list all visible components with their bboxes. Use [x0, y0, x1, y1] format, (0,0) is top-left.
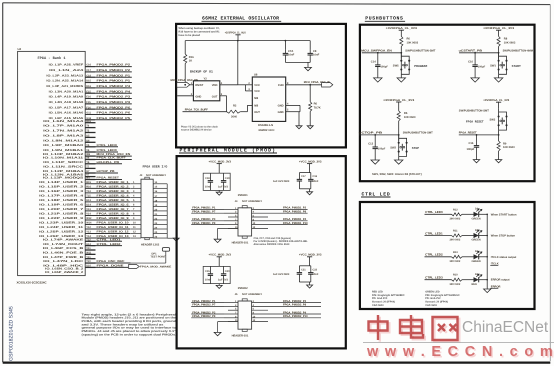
svg-text:IO_L8N_M1A12: IO_L8N_M1A12 [43, 139, 84, 142]
svg-text:10nF: 10nF [312, 273, 318, 276]
svg-text:FPGA_USER_IO_12: FPGA_USER_IO_12 [97, 230, 130, 234]
svg-text:source DS34BL1-N device: source DS34BL1-N device [181, 128, 212, 131]
svg-text:C17: C17 [301, 175, 306, 178]
svg-text:FPGA RESET: FPGA RESET [466, 120, 484, 123]
svg-text:1uF 6V3 0603: 1uF 6V3 0603 [273, 180, 290, 183]
svg-text:R5: R5 [404, 112, 408, 115]
svg-text:IO_L74N_DOUT: IO_L74N_DOUT [43, 243, 84, 246]
svg-text:PERIPHERAL MODULE (PMOD): PERIPHERAL MODULE (PMOD) [180, 147, 277, 153]
svg-text:10nF: 10nF [313, 53, 320, 56]
svg-text:R9: R9 [503, 142, 507, 145]
svg-text:FPGA_USER_IO_8: FPGA_USER_IO_8 [97, 212, 130, 216]
svg-text:IO_L15P_USER_2: IO_L15P_USER_2 [39, 185, 84, 188]
capacitor C14 [377, 52, 379, 54]
svg-text:66MHZ EXTERNAL OSCILLATOR: 66MHZ EXTERNAL OSCILLATOR [202, 16, 279, 22]
svg-text:IO_L6N_M1A4: IO_L6N_M1A4 [43, 120, 84, 123]
svg-text:uCTOP_PB: uCTOP_PB [359, 132, 382, 135]
svg-text:IO_L2N_A22_M1A14: IO_L2N_A22_M1A14 [46, 80, 84, 83]
svg-text:MCU_SWFPGA_EN: MCU_SWFPGA_EN [361, 50, 392, 53]
svg-text:SW/PUSHBUTTON-SMT: SW/PUSHBUTTON-SMT [459, 110, 489, 113]
ground for C10 [471, 78, 479, 82]
svg-text:uCLKPLL_PB: uCLKPLL_PB [97, 160, 120, 164]
svg-text:10nF: 10nF [205, 279, 211, 282]
wire R2 to U8 [240, 111, 247, 113]
svg-text:PROGRAM: PROGRAM [414, 64, 427, 68]
svg-text:390 0402: 390 0402 [450, 283, 461, 286]
svg-text:IO_L14P_USER_1: IO_L14P_USER_1 [39, 181, 84, 184]
svg-text:+3V3FPGA_CL_3V3: +3V3FPGA_CL_3V3 [386, 26, 418, 30]
capacitor C16 pushbutton [476, 134, 478, 136]
svg-text:TEST POINT: TEST POINT [150, 255, 166, 258]
wire R11 to D2 [462, 235, 474, 237]
ground for SW5 [400, 74, 402, 78]
svg-text:SW5: SW5 [393, 64, 399, 67]
svg-text:IO_L24P_USER_11: IO_L24P_USER_11 [39, 226, 84, 229]
capacitor C15 [209, 266, 211, 273]
svg-text:10K 0603: 10K 0603 [504, 41, 516, 44]
svg-text:IO_L8P_M1A3: IO_L8P_M1A3 [43, 135, 84, 138]
svg-text:PMOD2: PMOD2 [238, 286, 248, 290]
PMOD header J5 body [238, 301, 252, 329]
svg-text:R6: R6 [314, 103, 318, 106]
capacitor C13 [374, 134, 376, 136]
svg-text:NOT ASSEMBLY: NOT ASSEMBLY [146, 174, 166, 177]
wire Y2 GND left [177, 95, 193, 97]
svg-text:uCSTART_PB: uCSTART_PB [459, 50, 482, 53]
FPGA - Bank 1 symbol box U4 [18, 51, 86, 275]
capacitor C16 [310, 173, 312, 180]
svg-text:IO_L74P_AWAKE: IO_L74P_AWAKE [43, 238, 84, 241]
svg-text:XC6SLX16-2CSG324C: XC6SLX16-2CSG324C [17, 281, 47, 285]
capacitor C22 [310, 266, 312, 273]
svg-text:C16: C16 [312, 175, 317, 178]
svg-text:C13: C13 [368, 143, 373, 146]
oscillator Y2 body [193, 81, 219, 101]
svg-text:IO_L11P_SRCC: IO_L11P_SRCC [43, 161, 83, 164]
svg-text:CAD 0603: CAD 0603 [425, 304, 437, 307]
ground for SW2 [398, 156, 400, 160]
svg-text:FPGA_USER_IO_9: FPGA_USER_IO_9 [97, 216, 130, 220]
svg-text:CAD 0603: CAD 0603 [372, 304, 384, 307]
svg-text:IO_L16P_USER_3: IO_L16P_USER_3 [39, 190, 84, 193]
svg-text:IO_L3N_A20_M1A1: IO_L3N_A20_M1A1 [49, 90, 84, 93]
PMOD header J4 body [238, 208, 252, 236]
svg-text:have to be placed: have to be placed [179, 34, 201, 37]
ground for C16 [473, 160, 479, 163]
resistor R8 [497, 36, 500, 46]
svg-text:10K 0603: 10K 0603 [404, 116, 416, 119]
svg-text:390 0402: 390 0402 [450, 260, 461, 263]
svg-text:U8: U8 [254, 74, 258, 77]
svg-text:FPGA_RESET: FPGA_RESET [459, 132, 477, 135]
svg-text:+3V3FPGA_CL_AUX: +3V3FPGA_CL_AUX [225, 30, 246, 34]
svg-text:IO_L9N_M1BA1: IO_L9N_M1BA1 [43, 149, 84, 152]
wire D4 to bus [479, 256, 488, 258]
wire R6 to node [400, 46, 402, 58]
svg-text:Alternative DIODES / ESL 5513: Alternative DIODES / ESL 5513 [254, 243, 291, 246]
wire caps bottom join [285, 61, 310, 63]
svg-text:IO_L5P_A17_M1A7: IO_L5P_A17_M1A7 [49, 106, 84, 109]
svg-text:IO_L2P_A23_M1A13: IO_L2P_A23_M1A13 [46, 74, 84, 77]
capacitor C10 [474, 52, 476, 54]
svg-text:IO_L20P_USER_7: IO_L20P_USER_7 [39, 208, 84, 211]
svg-text:GREEN: GREEN [472, 239, 481, 242]
svg-text:IO_L22P_USER_9: IO_L22P_USER_9 [39, 217, 84, 220]
svg-text:IO_L1N_A24: IO_L1N_A24 [49, 69, 84, 72]
wire D2 to bus [479, 235, 488, 237]
ground caps PMOD2 left [218, 284, 220, 286]
svg-text:78.7K: 78.7K [314, 106, 321, 109]
svg-text:FPGA_TCK_BUFF: FPGA_TCK_BUFF [185, 109, 208, 112]
svg-text:When START button: When START button [491, 213, 517, 216]
wire D3 to bus [479, 279, 488, 281]
capacitor C8 [309, 41, 311, 50]
svg-text:CTRL LED: CTRL LED [362, 191, 391, 197]
wire R10 to D3 [462, 279, 474, 281]
PMOD header J5 pin wires [224, 302, 238, 304]
resistor R6 78.7K [309, 85, 311, 102]
svg-text:IO_L4N_A18_M1A8: IO_L4N_A18_M1A8 [49, 101, 84, 104]
PMOD header J4 pin wires [224, 208, 238, 210]
svg-text:ITCLK status output: ITCLK status output [491, 256, 517, 259]
bypass caps box PMOD2 left [203, 266, 230, 283]
svg-text:U4: U4 [18, 47, 22, 51]
svg-text:RED: RED [472, 283, 478, 286]
svg-text:+VCC_MOD_3V3: +VCC_MOD_3V3 [299, 253, 322, 257]
svg-text:FUN: FUN [278, 84, 284, 87]
test point DP1 [162, 248, 169, 252]
ground header J4 [218, 227, 238, 229]
svg-text:OUT: OUT [212, 96, 218, 99]
svg-text:PUSHBUTTONS: PUSHBUTTONS [365, 16, 403, 22]
svg-text:IO_L1P_A25_VREF: IO_L1P_A25_VREF [49, 64, 84, 67]
svg-text:390 0402: 390 0402 [450, 239, 461, 242]
svg-text:IO_L7N_M1A2: IO_L7N_M1A2 [43, 130, 84, 133]
svg-text:+3V3FPGA_CL_3V3: +3V3FPGA_CL_3V3 [483, 26, 515, 30]
header J3 pin wires [130, 183, 141, 185]
svg-text:OUT: OUT [254, 111, 260, 114]
capacitor C21 [299, 265, 310, 267]
ground for C13 [371, 160, 379, 164]
svg-text:ERROR output: ERROR output [491, 279, 510, 282]
svg-text:C19: C19 [225, 177, 230, 180]
svg-text:STOP: STOP [412, 146, 420, 150]
svg-text:100pF: 100pF [381, 65, 389, 68]
svg-text:R13: R13 [453, 251, 458, 254]
svg-text:When using backup oscillator Y: When using backup oscillator Y2, [179, 27, 220, 30]
svg-text:FPGA_MOD_AWAKE: FPGA_MOD_AWAKE [140, 265, 172, 268]
svg-text:HEADER 6X1: HEADER 6X1 [232, 241, 249, 244]
svg-text:CTRL_LED2: CTRL_LED2 [425, 253, 443, 257]
svg-text:NB: NB [254, 97, 258, 100]
svg-text:NOT ASSEMBLY: NOT ASSEMBLY [242, 200, 262, 203]
svg-text:+VCC_MOD_3V3: +VCC_MOD_3V3 [299, 159, 322, 163]
svg-text:+3V3FPGA_CL_3V3: +3V3FPGA_CL_3V3 [483, 98, 509, 102]
svg-text:C14: C14 [371, 61, 376, 64]
resistor R6 [400, 36, 403, 46]
wire R5 to node [398, 121, 400, 141]
svg-text:IO_L4P_A19_M1A9: IO_L4P_A19_M1A9 [49, 96, 84, 99]
svg-text:DS34BL1-N: DS34BL1-N [258, 123, 273, 127]
oscillator block border box [176, 24, 346, 147]
svg-text:SW2: SW2 [390, 147, 396, 150]
svg-text:10nF: 10nF [312, 180, 318, 183]
svg-text:IO_L9P_M1BA0: IO_L9P_M1BA0 [43, 144, 84, 147]
svg-text:10nF: 10nF [205, 185, 211, 188]
svg-text:GREEN: GREEN [472, 218, 481, 221]
wire Y2 VDD to power [220, 84, 238, 86]
svg-text:IO_L3P_A21_M1RES: IO_L3P_A21_M1RES [46, 85, 83, 88]
svg-text:100pF: 100pF [478, 65, 486, 68]
wire R8 to node [498, 46, 500, 58]
svg-text:IO_L65P_AWAKE_2: IO_L65P_AWAKE_2 [45, 271, 84, 274]
ground for caps [305, 67, 312, 70]
svg-text:START: START [512, 64, 521, 68]
svg-text:ITCLK: ITCLK [491, 262, 499, 265]
svg-text:IO_L65N_CSO_B_2: IO_L65N_CSO_B_2 [45, 268, 84, 271]
svg-text:IO_L10N_M1A11: IO_L10N_M1A11 [43, 157, 84, 160]
svg-text:GND: GND [278, 104, 284, 107]
buffer U8 body [252, 77, 285, 121]
svg-text:IO_L19P_USER_6: IO_L19P_USER_6 [39, 204, 84, 207]
svg-text:IO_L47P_FWE_B: IO_L47P_FWE_B [43, 256, 83, 259]
svg-text:FPGA USER I/O: FPGA USER I/O [143, 164, 168, 168]
svg-text:HEADER 13X2: HEADER 13X2 [141, 244, 160, 247]
svg-text:100pF: 100pF [467, 148, 475, 151]
svg-text:+3V3FPGA_CL_3V3: +3V3FPGA_CL_3V3 [383, 98, 415, 102]
svg-text:SW/PUSHBUTTON-SMT: SW/PUSHBUTTON-SMT [403, 132, 433, 135]
svg-text:R10: R10 [453, 274, 458, 277]
svg-text:SW/PUSHBUTTON-SMT: SW/PUSHBUTTON-SMT [405, 50, 435, 53]
svg-text:R2: R2 [233, 104, 237, 107]
wire R13 to D4 [462, 256, 474, 258]
wire R16 to EN node [184, 64, 186, 85]
svg-text:IO_L11N_SRCC: IO_L11N_SRCC [43, 166, 83, 169]
ground for R6 [307, 126, 313, 129]
header J3 connector body [141, 179, 153, 238]
svg-text:Y2: Y2 [204, 78, 208, 81]
svg-text:VDD: VDD [212, 84, 218, 87]
capacitor C7A [284, 41, 286, 50]
svg-text:1uF 6V3 0603: 1uF 6V3 0603 [273, 273, 290, 276]
svg-text:(spacing) on the PCB in order: (spacing) on the PCB in order to support… [82, 332, 177, 336]
svg-text:IO_L47N_LDC: IO_L47N_LDC [43, 260, 83, 263]
svg-text:IO_L18P_USER_5: IO_L18P_USER_5 [39, 199, 84, 202]
svg-text:C10: C10 [468, 61, 473, 64]
svg-text:390 0402: 390 0402 [450, 218, 461, 221]
svg-text:1uF 6V3: 1uF 6V3 [218, 279, 228, 282]
ground for R9 [495, 160, 501, 163]
ground caps PMOD2 right [299, 281, 310, 283]
wire OSC_EN to Y2 [190, 84, 194, 86]
svg-text:10K 0603: 10K 0603 [407, 41, 419, 44]
svg-text:BACKUP OF U1: BACKUP OF U1 [190, 70, 213, 74]
svg-text:VCC: VCC [254, 84, 260, 87]
watermark ChinaECNet [354, 311, 554, 366]
svg-text:C18: C18 [205, 177, 210, 180]
svg-text:R12: R12 [453, 208, 458, 211]
svg-text:NOT ASSEMBLY: NOT ASSEMBLY [242, 293, 262, 296]
svg-text:IO_L12P_M1BA4: IO_L12P_M1BA4 [43, 170, 84, 173]
svg-text:10nF: 10nF [288, 53, 295, 56]
svg-text:SW1: SW1 [490, 64, 496, 67]
ground caps PMOD1 right [299, 188, 310, 190]
capacitor C20 [223, 266, 225, 273]
svg-text:ERROR: ERROR [491, 285, 501, 288]
svg-text:IO_L21P_USER_8: IO_L21P_USER_8 [39, 213, 84, 216]
svg-text:R6: R6 [407, 38, 411, 41]
svg-text:GSP0018Z014ZD S345: GSP0018Z014ZD S345 [9, 306, 15, 361]
svg-text:IO_L23P_USER_10: IO_L23P_USER_10 [39, 222, 84, 225]
resistor R9 [498, 135, 500, 141]
watermark glyphs zhong dian wang [354, 311, 554, 366]
ground for header J3 [173, 238, 179, 241]
LED ground bus [486, 214, 488, 289]
svg-text:GND: GND [195, 96, 201, 99]
wire U8 GND pins [286, 104, 300, 106]
svg-text:IO_L46P_FCS_B: IO_L46P_FCS_B [43, 247, 83, 250]
svg-text:CTRL_LED0: CTRL_LED0 [425, 210, 443, 214]
ground for C14 [374, 78, 382, 82]
capacitor C18 [209, 173, 211, 180]
svg-text:C16: C16 [469, 142, 474, 145]
svg-text:10K 0603: 10K 0603 [503, 146, 515, 149]
svg-text:R8: R8 [504, 38, 508, 41]
svg-text:+VCC_MOD_3V3: +VCC_MOD_3V3 [209, 159, 232, 163]
CTRL LED block border box [360, 202, 535, 309]
wire top bus [185, 40, 310, 42]
svg-text:R16: R16 [189, 56, 194, 59]
wire U8 VCC pins [238, 84, 253, 86]
svg-text:IO_L46N_FOE_B: IO_L46N_FOE_B [43, 251, 83, 254]
wire D1 to bus [479, 213, 488, 215]
svg-text:C20: C20 [225, 270, 230, 273]
PMOD block border box [177, 156, 346, 348]
ground for U8 [296, 126, 302, 129]
svg-text:100pF: 100pF [378, 148, 386, 151]
svg-text:IO_L7P_M1A0: IO_L7P_M1A0 [43, 125, 84, 128]
svg-text:CTRL_LED1: CTRL_LED1 [425, 231, 443, 235]
svg-text:HEADER 6X1: HEADER 6X1 [232, 335, 249, 338]
svg-text:EN/ST: EN/ST [195, 84, 203, 87]
svg-text:IO_L25P_USER_12: IO_L25P_USER_12 [39, 231, 84, 234]
svg-text:FPGA - Bank 1: FPGA - Bank 1 [37, 56, 65, 61]
svg-text:R16 have to be connected and R: R16 have to be connected and R1 [179, 30, 221, 33]
svg-text:C15: C15 [205, 270, 210, 273]
wire power to bus [237, 35, 239, 41]
ground header J5 [218, 321, 238, 323]
svg-text:66MHZ OCC: 66MHZ OCC [259, 128, 275, 132]
svg-text:IO_L17P_USER_4: IO_L17P_USER_4 [39, 194, 84, 197]
svg-text:GREEN: GREEN [472, 260, 481, 263]
ground caps PMOD1 left [218, 190, 220, 192]
header J3 ground bus wire [166, 184, 168, 238]
svg-text:NB: NB [254, 104, 258, 107]
svg-text:FPGA_USER_IO_2: FPGA_USER_IO_2 [97, 184, 130, 188]
wire Y2 OUT [220, 95, 227, 97]
svg-text:C22: C22 [312, 268, 317, 271]
svg-text:PMOD1: PMOD1 [238, 193, 248, 197]
svg-text:1uF 6V3: 1uF 6V3 [218, 185, 228, 188]
wire R12 to D1 [462, 213, 474, 215]
svg-text:CTRL_LED3: CTRL_LED3 [97, 143, 118, 147]
svg-text:SW/PUSHBUTTON-4MM: SW/PUSHBUTTON-4MM [503, 50, 534, 53]
svg-text:IO_L5N_A16_M1A6: IO_L5N_A16_M1A6 [49, 112, 84, 115]
svg-text:SW1, SW2, SW4: Omron B3 (STD-K: SW1, SW2, SW4: Omron B3 (STD-KIT) [372, 172, 422, 176]
svg-text:2640: 2640 [231, 116, 237, 119]
svg-text:+VCC_MOD_3V3: +VCC_MOD_3V3 [209, 253, 232, 257]
svg-text:1K: 1K [189, 60, 192, 63]
svg-text:FPGA_USER_IO_1: FPGA_USER_IO_1 [97, 180, 130, 184]
svg-text:C21: C21 [301, 268, 306, 271]
svg-text:IO_L13P_MODQS: IO_L13P_MODQS [43, 177, 84, 180]
svg-text:R11: R11 [453, 230, 458, 233]
svg-text:GND: GND [278, 111, 284, 114]
svg-text:CTRL_LED3: CTRL_LED3 [425, 276, 443, 280]
resistor R5 [397, 111, 400, 121]
ground for SW1 [498, 74, 500, 78]
svg-text:When STOP button: When STOP button [491, 235, 516, 238]
capacitor C17 [299, 172, 310, 174]
capacitor C19 [223, 173, 225, 180]
svg-text:VCC: VCC [254, 90, 260, 93]
resistor R16 [184, 41, 186, 54]
ground for LEDs [484, 289, 491, 293]
pushbuttons block border box [360, 25, 535, 182]
svg-text:FPGA_USER_IO_5: FPGA_USER_IO_5 [97, 198, 130, 202]
bypass caps box PMOD1 left [203, 173, 230, 190]
svg-text:SW3: SW3 [490, 119, 496, 122]
